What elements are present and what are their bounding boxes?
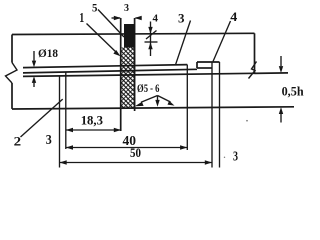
dia5-6 fan left leader <box>141 96 158 103</box>
dia5-6 left arrowhead <box>135 102 144 106</box>
svg-text:3: 3 <box>233 149 238 164</box>
svg-text:2: 2 <box>14 134 22 149</box>
leader for label 1 <box>87 24 118 54</box>
dim 3 (top) right dim line <box>136 17 142 19</box>
dia5-6 fan mid leader <box>157 96 159 101</box>
dim 40 line <box>66 147 188 149</box>
leader for label 2 <box>21 99 63 137</box>
plate right edge <box>254 33 256 73</box>
upper sheet left edge v2 + extension to 40 dim <box>65 72 67 149</box>
dim 3 top right arrowhead <box>135 16 142 21</box>
rivet shank hatched zone <box>121 48 134 108</box>
dim 3 (top) left dim line <box>112 17 121 19</box>
dia18 up arrowhead <box>32 76 36 83</box>
step tab inner line <box>197 67 212 69</box>
scan speck near up arrow <box>246 120 248 122</box>
svg-text:4: 4 <box>153 13 159 24</box>
step tab left cap <box>196 62 198 68</box>
leader for label 3 top-right <box>176 21 191 65</box>
rivet column left edge (also dim extension) <box>120 18 122 131</box>
plate left edge upper segment <box>11 35 13 63</box>
svg-text:3: 3 <box>46 132 52 147</box>
dim 4 down arrowhead <box>148 27 152 34</box>
step tab outer vertical + extension <box>219 62 221 168</box>
dim 18,3 line <box>66 129 121 131</box>
sheet line B (lower sheet bottom, long to the right) <box>23 73 288 77</box>
dim 4 depth tick line <box>145 41 158 43</box>
dia5-6 mid arrowhead <box>155 100 159 107</box>
sheet line T (upper sheet top) <box>23 65 187 68</box>
plate left edge lower segment <box>11 83 13 109</box>
dia5-6 right arrowhead <box>168 101 175 106</box>
upper sheet right edge + extension to 40 dim <box>186 65 188 150</box>
dim 0,5h bottom arrow line <box>280 114 282 123</box>
svg-text:3: 3 <box>178 11 185 26</box>
step tab (item 4) top line <box>197 61 220 63</box>
dim 50 left arrowhead <box>60 160 67 165</box>
plate bottom edge + extension to 0,5h arrow <box>12 107 294 109</box>
dia18 down arrow line <box>33 51 35 61</box>
leader for label 4 top-right <box>213 21 231 62</box>
dia18 up arrow line <box>33 83 35 87</box>
dim 0,5h down arrowhead <box>279 66 283 73</box>
dim 4 (depth) vertical line <box>150 22 152 57</box>
right break slash on sheet line <box>249 62 257 79</box>
dim 18,3 right arrowhead <box>114 128 121 133</box>
svg-text:4: 4 <box>230 9 238 24</box>
step tab inner vertical + extension to 50 dim <box>211 62 213 168</box>
sheet line M (faying surface) <box>23 69 197 73</box>
dia5-6 fan right leader <box>158 96 171 103</box>
dim 0,5h up arrowhead <box>279 107 283 114</box>
rivet column right edge (also dim extension) <box>134 18 136 111</box>
svg-text:0,5h: 0,5h <box>282 85 304 99</box>
svg-text:1: 1 <box>79 10 84 25</box>
svg-text:5: 5 <box>92 2 98 14</box>
svg-text:3: 3 <box>124 2 129 14</box>
dim 40 left arrowhead <box>66 145 73 150</box>
scan speck near 50 dim <box>224 157 225 158</box>
dim 50 right arrowhead <box>205 160 212 165</box>
dim 0,5h top arrow line <box>280 56 282 66</box>
svg-text:50: 50 <box>130 145 141 160</box>
dim 50 line <box>60 162 213 164</box>
rivet nugget black head (item 5) <box>124 24 135 48</box>
dim 4 up arrowhead <box>148 42 152 49</box>
plate left edge break zigzag <box>6 63 18 84</box>
lower sheet left edge v1 + extension to 50 dim <box>59 76 61 168</box>
plate (item 2) top edge <box>12 33 255 34</box>
svg-text:Ø18: Ø18 <box>38 46 58 60</box>
dim 4 oblique tick <box>146 31 157 40</box>
svg-text:Ø5 - 6: Ø5 - 6 <box>137 81 160 95</box>
leader 1 arrowhead <box>113 50 120 56</box>
dia18 down arrowhead <box>32 61 36 68</box>
leader for label 5 <box>98 10 124 38</box>
dim 40 right arrowhead <box>180 145 187 150</box>
svg-text:18,3: 18,3 <box>81 113 104 128</box>
dim 18,3 left arrowhead <box>66 128 73 133</box>
dim 3 top left arrowhead <box>114 16 121 21</box>
